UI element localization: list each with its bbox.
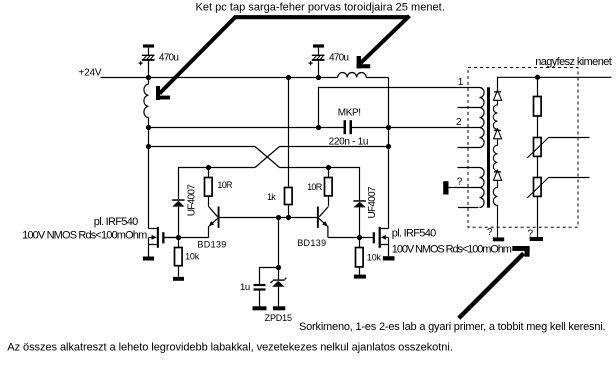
wire MKP line right (cap to node X2) bbox=[352, 127, 389, 129]
junction right gate rail / R2 bbox=[326, 165, 331, 170]
potentiometer P2 (screen) bbox=[527, 178, 589, 238]
wire MKP line left (node X1 to cap) bbox=[149, 127, 344, 129]
resistor R2 10R (right) bbox=[325, 168, 333, 206]
capacitor C1 470u electrolytic bbox=[139, 44, 155, 77]
svg-text:?: ? bbox=[487, 227, 493, 238]
diode D5 (secondary internal, bottom) bbox=[494, 170, 502, 180]
arrowhead at L1 bbox=[156, 86, 170, 100]
svg-text:10k: 10k bbox=[367, 253, 382, 263]
arrowhead at L2 bbox=[357, 56, 371, 68]
ground (1u cap) bbox=[253, 306, 267, 310]
svg-text:Az összes alkatreszt a leheto: Az összes alkatreszt a leheto legrovideb… bbox=[7, 342, 452, 354]
junction HV output / divider bbox=[535, 75, 540, 80]
svg-text:+24V: +24V bbox=[79, 67, 102, 78]
junction node X2 / feedback bbox=[386, 144, 391, 149]
wire arrow shaft to L2 bbox=[360, 16, 410, 64]
diode D1 UF4007 (left) bbox=[172, 199, 184, 237]
transformer T1 primary winding lower bbox=[480, 168, 485, 208]
wire zener column bbox=[278, 218, 280, 280]
diode Z1 ZPD15 zener bbox=[270, 278, 286, 307]
terminal ? (unknown pin) bbox=[443, 181, 479, 194]
svg-text:1: 1 bbox=[458, 77, 464, 88]
potentiometer P1 (focus) bbox=[527, 138, 589, 178]
resistor R3 1k (center) bbox=[285, 78, 293, 218]
wire crossover diagonal X1-to-right-gate bbox=[255, 147, 280, 168]
wire cross-coupling upper left (X1 to X) bbox=[149, 146, 256, 148]
svg-text:ZPD15: ZPD15 bbox=[265, 313, 292, 323]
resistor R1 10R (left) bbox=[205, 168, 213, 207]
svg-text:1u: 1u bbox=[240, 282, 250, 293]
svg-text:2: 2 bbox=[456, 117, 462, 128]
wire crossover diagonal left-gate-to-X2 bbox=[255, 147, 280, 168]
inductor L2 (horizontal choke) bbox=[338, 73, 367, 78]
junction rail / C1 / L1 bbox=[146, 75, 151, 80]
junction left gate node bbox=[176, 235, 181, 240]
wire secondary top / HV output line bbox=[498, 77, 612, 91]
arrowhead at transformer grounds bbox=[512, 246, 529, 257]
wire stub tap (between 1 and 2) bbox=[458, 107, 480, 109]
svg-text:10R: 10R bbox=[307, 182, 323, 192]
svg-text:BD139: BD139 bbox=[297, 238, 326, 248]
diode D2 UF4007 (right) bbox=[354, 200, 366, 237]
junction base rail / R3 1k bottom bbox=[286, 215, 291, 220]
junction zener / 1u cap bbox=[276, 265, 281, 270]
svg-text:470u: 470u bbox=[329, 53, 348, 64]
diode D4 (secondary internal, mid) bbox=[494, 129, 502, 139]
ground (left mosfet source) bbox=[143, 257, 154, 261]
transformer T1 secondary winding seg3 bbox=[493, 181, 497, 238]
wire left gate rail bbox=[179, 168, 256, 200]
svg-text:220n - 1u: 220n - 1u bbox=[329, 136, 369, 147]
wire right gate rail bbox=[280, 168, 360, 201]
ground (zener) bbox=[273, 306, 285, 310]
svg-text:Ket pc tap sarga-feher porvas: Ket pc tap sarga-feher porvas toroidjair… bbox=[196, 2, 445, 14]
diode D3 (secondary internal, top) bbox=[494, 90, 502, 100]
junction rail / C2 bbox=[316, 75, 321, 80]
wire node-X2 column (coil2 out / pin2 / right drain) bbox=[388, 78, 390, 229]
transistor Q2 BD139 (right) bbox=[317, 206, 360, 237]
junction node X1 / feedback bbox=[146, 144, 151, 149]
ground (HV divider) bbox=[530, 237, 543, 241]
transformer T1 core bbox=[487, 87, 490, 207]
junction base rail / zener branch bbox=[276, 215, 281, 220]
junction node X2 / tank line bbox=[386, 125, 391, 130]
mosfet M1 IRF540 (left) bbox=[149, 227, 179, 257]
transformer T1 secondary winding seg2 bbox=[493, 139, 497, 171]
transformer T1 dashed outline bbox=[468, 68, 578, 228]
transformer T1 secondary winding seg1 bbox=[493, 101, 497, 130]
svg-text:BD139: BD139 bbox=[197, 239, 226, 249]
wire stub tap (lower winding top) bbox=[458, 167, 480, 169]
svg-text:pl. IRF540: pl. IRF540 bbox=[392, 227, 436, 239]
wire base rail bbox=[220, 217, 317, 219]
svg-text:nagyfesz kimenet: nagyfesz kimenet bbox=[535, 56, 612, 68]
svg-text:470u: 470u bbox=[159, 53, 178, 64]
svg-text:pl. IRF540: pl. IRF540 bbox=[94, 216, 138, 228]
capacitor C3 MKP tank cap bbox=[344, 120, 353, 134]
resistor R4 10k (left gate) bbox=[175, 238, 183, 277]
svg-text:100V NMOS Rds<100mOhm: 100V NMOS Rds<100mOhm bbox=[22, 230, 147, 242]
svg-text:10k: 10k bbox=[185, 251, 200, 261]
junction node X1 / tank line bbox=[146, 125, 151, 130]
svg-text:100V NMOS Rds<100mOhm: 100V NMOS Rds<100mOhm bbox=[392, 244, 512, 256]
transformer T1 primary winding upper bbox=[480, 88, 485, 148]
svg-text:10R: 10R bbox=[217, 180, 233, 190]
ground (right mosfet source) bbox=[383, 256, 395, 260]
ground (left 10k) bbox=[173, 277, 184, 281]
node +24V input rail bbox=[101, 77, 389, 79]
svg-text:UF4007: UF4007 bbox=[187, 184, 198, 217]
wire pin2 line bbox=[389, 127, 480, 129]
svg-text:UF4007: UF4007 bbox=[367, 186, 378, 219]
svg-text:Sorkimeno, 1-es 2-es lab a gya: Sorkimeno, 1-es 2-es lab a gyari primer,… bbox=[299, 321, 605, 333]
wire pin1 branch from node X1 bbox=[319, 88, 480, 128]
wire node-X1 column (coil1 out / left drain) bbox=[148, 78, 150, 229]
svg-text:1k: 1k bbox=[267, 192, 276, 202]
wire big arrow shaft (bottom note to transformer) bbox=[459, 253, 524, 318]
inductor L1 (vertical choke) bbox=[144, 84, 149, 117]
svg-text:MKP!: MKP! bbox=[338, 108, 361, 119]
wire arrow shaft to L1 bbox=[160, 16, 237, 93]
junction left gate rail / R1 bbox=[206, 165, 211, 170]
capacitor C2 470u electrolytic bbox=[309, 44, 325, 77]
mosfet M2 IRF540 (right) bbox=[360, 227, 389, 256]
capacitor C4 1u bbox=[254, 268, 279, 307]
svg-text:?: ? bbox=[457, 177, 463, 188]
junction right gate node bbox=[357, 235, 362, 240]
wire cross-coupling upper right (X to node X2) bbox=[280, 146, 389, 148]
resistor R6 (HV divider top) bbox=[534, 77, 542, 137]
junction rail / R3 1k top bbox=[286, 75, 291, 80]
ground (secondary) bbox=[493, 237, 504, 241]
wire stub tap (below 2) bbox=[458, 147, 480, 149]
junction tank line / pin1 branch bbox=[316, 125, 321, 130]
transistor Q1 BD139 (left) bbox=[165, 206, 220, 237]
wire arrow note top bar bbox=[235, 15, 409, 19]
wire stub tap (lower winding bottom) bbox=[458, 207, 479, 209]
resistor R5 10k (right gate) bbox=[356, 238, 364, 275]
ground (right 10k) bbox=[354, 275, 366, 279]
